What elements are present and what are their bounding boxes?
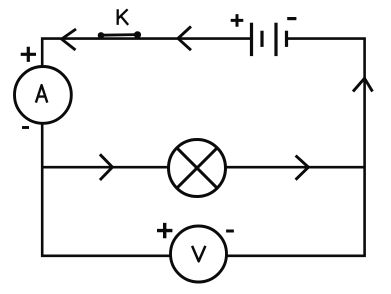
current arrow on middle wire (left of lamp, pointing right)	[100, 154, 113, 180]
label K	[118, 9, 129, 25]
lamp L1 circle	[169, 140, 226, 197]
current arrow on middle wire (right of lamp, pointing right)	[296, 156, 309, 180]
voltmeter + label	[157, 223, 172, 238]
up arrow on right wire	[353, 78, 373, 91]
current arrow on top wire (left of switch, pointing left)	[62, 29, 76, 50]
battery - label	[287, 17, 296, 20]
battery cell plate short 1	[260, 31, 263, 47]
wire ammeter bottom to bottom-left corner then right to voltmeter	[42, 124, 171, 256]
wire battery right to top-right corner and down right side to bottom-right corner then left to voltmeter	[227, 39, 365, 256]
ammeter + label	[21, 47, 36, 62]
voltmeter letter V	[192, 246, 205, 261]
battery cell plate long 1	[250, 23, 253, 56]
ammeter letter A	[36, 85, 47, 103]
battery cell plate short 2	[285, 31, 288, 47]
voltmeter - label	[226, 230, 234, 233]
ammeter A1 circle	[15, 67, 72, 124]
wire middle left segment	[42, 166, 168, 169]
lamp cross line 2	[177, 148, 217, 188]
battery cell plate long 2	[274, 23, 277, 56]
current arrow on top wire (right of switch, pointing left)	[178, 26, 191, 50]
ammeter - label	[22, 126, 29, 129]
battery + label	[231, 14, 244, 27]
switch K right contact dot	[134, 31, 141, 38]
wire top-left + left down to ammeter	[42, 39, 250, 67]
voltmeter V1 circle	[171, 226, 227, 282]
switch K bar	[101, 33, 138, 36]
switch K left contact dot	[98, 32, 105, 39]
wire middle right segment	[226, 166, 365, 169]
lamp cross line 1	[177, 148, 217, 188]
